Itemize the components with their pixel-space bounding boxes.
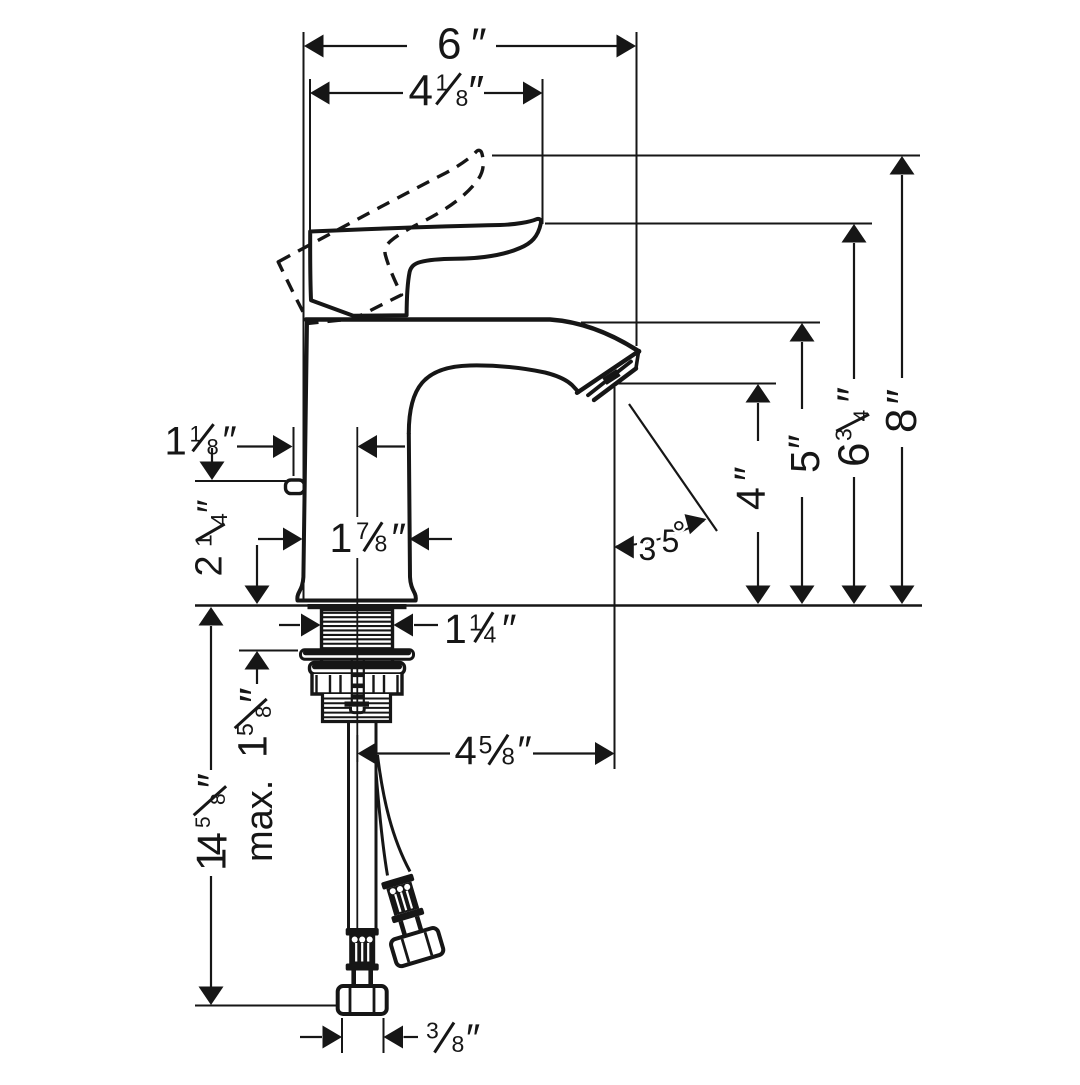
svg-text:″: ″ [780, 434, 826, 449]
svg-text:2: 2 [189, 555, 231, 576]
mounting nut ring [310, 663, 405, 674]
dimension 2-1/4-inch: label (rotated) [189, 555, 231, 576]
reference line for 6-3/4-inch (handle tip) [545, 223, 872, 225]
svg-text:6: 6 [830, 443, 879, 467]
pop-up rod [351, 660, 353, 702]
svg-text:″: ″ [466, 1017, 480, 1061]
dimension 8-inch: line, arrows, label [901, 175, 903, 378]
faucet base gasket bar [308, 604, 407, 609]
svg-text:4: 4 [484, 622, 497, 648]
dimension 1-1/8-inch: lines and arrows [237, 445, 273, 447]
svg-text:″: ″ [392, 515, 407, 561]
extension line from aerator [614, 387, 616, 769]
svg-text:3: 3 [639, 531, 657, 567]
hose end fitting with compression nut (vertical) [338, 928, 387, 1014]
dimension 1-5/8-inch: label (rotated) [230, 735, 276, 758]
dimension 4-1/8-inch: dimension line and arrows [329, 92, 403, 94]
dimension 14-5/8-inch: label (rotated) [188, 848, 235, 871]
svg-text:1: 1 [165, 420, 187, 464]
pop-up rod clevis [345, 702, 370, 707]
sealing washer [301, 650, 414, 659]
dimension 5-inch: line, arrows, label [801, 342, 803, 409]
svg-text:1: 1 [230, 735, 276, 758]
svg-text:8: 8 [502, 744, 515, 771]
svg-text:5: 5 [782, 450, 828, 473]
lower threaded section [323, 694, 391, 722]
dimension 4-1/8-inch handle length: extension lines [309, 79, 311, 232]
handle (solid, closed position) [310, 219, 541, 316]
svg-text:″: ″ [502, 606, 517, 652]
aerator bottom band [594, 369, 636, 401]
dimension 4-5/8-inch: lines and arrows [377, 752, 450, 754]
svg-text:8: 8 [877, 409, 926, 433]
threaded shank [322, 610, 393, 651]
svg-text:6: 6 [437, 20, 461, 69]
spout top edge [306, 320, 639, 352]
hose end fitting with compression nut (angled) [373, 871, 444, 967]
svg-text:″: ″ [191, 500, 233, 513]
svg-text:5: 5 [479, 732, 493, 760]
max. label (rotated) [239, 780, 281, 862]
svg-text:″: ″ [726, 466, 772, 481]
dimension 4-inch: line, arrows, label [757, 403, 759, 441]
reference line for 4-inch (aerator) [618, 383, 776, 385]
aerator center block [605, 373, 619, 382]
reference line at pop-up knob [195, 480, 286, 482]
counter / mounting surface line [195, 604, 922, 607]
dimension 1-7/8-inch body width: lines and arrows [258, 538, 283, 540]
dimension 6-3/4-inch: line, arrows, label [853, 243, 855, 379]
svg-text:4: 4 [409, 67, 433, 116]
pop-up rod knob [286, 480, 305, 494]
spray direction line (35 deg) [629, 404, 717, 531]
svg-text:8: 8 [251, 706, 276, 718]
svg-text:4: 4 [728, 487, 774, 510]
handle (dashed, raised position) [273, 149, 523, 337]
svg-text:″: ″ [471, 20, 487, 69]
svg-text:4: 4 [455, 729, 477, 773]
svg-text:4: 4 [206, 513, 232, 526]
svg-text:″: ″ [231, 687, 280, 703]
dimension 3/8-inch: tick extension lines [341, 1018, 343, 1053]
aerator right cap [636, 352, 639, 368]
svg-text:3: 3 [426, 1018, 439, 1044]
aerator middle band [588, 362, 631, 396]
reference line for 5-inch (spout top) [581, 322, 820, 324]
svg-text:1: 1 [444, 606, 467, 652]
dimension 6-inch overall: extension lines [303, 32, 305, 600]
reference line washer bottom [239, 650, 298, 652]
spout underside curve [409, 365, 579, 433]
dimension 14-5/8-inch max: line and arrows [210, 626, 212, 770]
dimension 1-1/4-inch shank: lines and arrows [279, 624, 300, 626]
mounting nut slotted skirt [312, 674, 402, 694]
svg-text:4: 4 [189, 832, 236, 855]
svg-text:8: 8 [452, 1031, 465, 1057]
svg-text:8: 8 [456, 85, 469, 111]
faucet body [297, 321, 415, 601]
svg-text:7: 7 [356, 518, 369, 545]
shank between washer and nut [320, 659, 323, 664]
svg-text:5: 5 [232, 723, 258, 736]
dimension 1-5/8-inch: arrow [256, 669, 258, 684]
svg-text:″: ″ [223, 419, 237, 463]
svg-text:″: ″ [878, 389, 927, 405]
svg-text:°: ° [672, 515, 686, 553]
svg-text:5: 5 [192, 816, 215, 828]
dimension 2-1/4-inch: arrows [211, 448, 213, 462]
faucet centerline [356, 427, 358, 517]
svg-text:max.: max. [239, 780, 281, 862]
dimension 3/8-inch: lines and arrows [300, 1036, 322, 1038]
reference line at hose nut bottom [195, 1005, 339, 1007]
svg-text:1: 1 [330, 515, 353, 561]
svg-text:″: ″ [518, 729, 532, 773]
svg-text:8: 8 [375, 531, 388, 557]
reference line for 8-inch (raised handle tip) [492, 155, 920, 157]
supply tube [347, 722, 350, 929]
svg-text:″: ″ [469, 67, 485, 116]
dimension 1-1/8-inch (pop-up rod to centerline): extension line [293, 427, 295, 476]
svg-text:″: ″ [189, 773, 236, 788]
svg-text:4: 4 [850, 410, 873, 422]
spout aerator end face [577, 351, 639, 393]
flexible hose (angled) [376, 772, 388, 876]
dimension 6-inch: dimension line and arrows [323, 45, 407, 47]
svg-text:8: 8 [207, 793, 230, 805]
35 degree arc arrowheads [616, 521, 704, 547]
svg-text:″: ″ [829, 387, 878, 403]
svg-text:3: 3 [831, 428, 857, 441]
